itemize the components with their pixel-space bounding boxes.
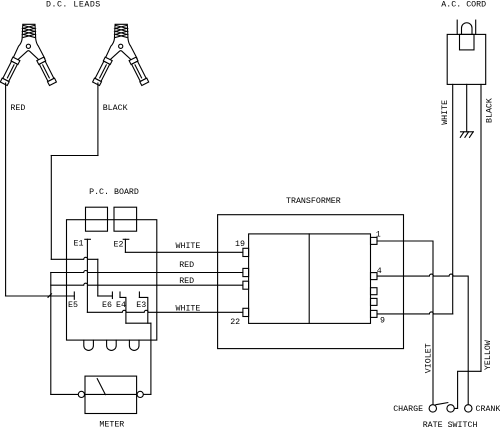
svg-text:WHITE: WHITE (441, 100, 450, 125)
wire E4/E3 joined horizontal (126, 322, 151, 324)
wire down to meter right (150, 323, 152, 394)
svg-text:METER: METER (99, 421, 124, 429)
A.C. plug prong left (456, 20, 458, 34)
meter terminal circle left (78, 391, 84, 397)
svg-text:E5: E5 (68, 301, 78, 310)
wire BLACK to E6 (hop over E1 wire) (51, 257, 98, 259)
wire meter left horizontal (51, 393, 79, 395)
A.C. plug prong right (475, 20, 477, 34)
svg-text:BLACK: BLACK (103, 104, 128, 113)
svg-text:A.C. CORD: A.C. CORD (441, 0, 486, 9)
wire BLACK a.c. down (480, 84, 482, 371)
wire E4 stub and drop (120, 297, 126, 323)
svg-text:E3: E3 (136, 301, 146, 310)
wire branch vertical to meter left (50, 273, 52, 395)
junction chamfer at RED branch (48, 294, 52, 298)
wire E2 down (124, 239, 126, 252)
svg-text:P.C. BOARD: P.C. BOARD (89, 188, 139, 197)
P.C. board prong tab 2 (107, 340, 117, 350)
terminal E3 (138, 292, 140, 297)
A.C. plug inner rect (460, 34, 475, 50)
meter internal line (85, 393, 137, 395)
wire BLACK horizontal jog (51, 155, 98, 157)
svg-text:E2: E2 (114, 241, 124, 250)
svg-text:CRANK: CRANK (476, 405, 500, 414)
terminal E6 (111, 292, 113, 299)
P.C. board prong tab 1 (84, 340, 94, 350)
wire pin 4 to CRANK (hops over violet and white wires) (377, 274, 468, 405)
wire BLACK clip down (97, 83, 99, 156)
svg-text:RED: RED (179, 277, 194, 286)
svg-text:9: 9 (380, 317, 385, 326)
transformer pin 1 (371, 237, 378, 244)
svg-text:1: 1 (376, 231, 381, 240)
transformer pin 22 (243, 308, 249, 316)
A.C. plug cord arch (462, 23, 473, 35)
rate switch terminal CRANK (465, 405, 472, 412)
svg-text:WHITE: WHITE (176, 242, 201, 251)
P.C. board prong tab 3 (129, 340, 139, 350)
terminal E5 (73, 292, 75, 299)
alligator clip RED (D.C. lead) (0, 24, 56, 85)
chassis ground symbol (461, 131, 474, 133)
svg-text:22: 22 (230, 318, 240, 327)
transformer pin 9 (371, 310, 378, 317)
transformer inner box (249, 234, 371, 324)
wire pin 1 to CHARGE (violet) (377, 241, 433, 405)
svg-text:19: 19 (235, 240, 245, 249)
wire BLACK vertical (50, 156, 52, 260)
svg-text:RED: RED (10, 104, 25, 113)
wire E1 to pin 22 (hops over E4,E3 wires) (87, 310, 242, 312)
transformer outer box (218, 215, 404, 349)
svg-text:E6: E6 (102, 301, 112, 310)
svg-text:TRANSFORMER: TRANSFORMER (286, 197, 341, 206)
meter needle (97, 379, 105, 395)
transformer pin 4 (371, 273, 378, 280)
svg-text:RATE SWITCH: RATE SWITCH (423, 421, 478, 429)
P.C. board component square 2 (114, 207, 137, 231)
terminal E4 (119, 292, 121, 297)
rate switch arm (436, 403, 448, 405)
wire E2 to pin 19 (125, 251, 242, 253)
meter body (85, 376, 137, 413)
P.C. board component square 1 (86, 207, 108, 231)
wire YELLOW from black a.c. to middle switch terminal (454, 371, 481, 408)
rate switch terminal CHARGE (429, 405, 436, 412)
svg-text:WHITE: WHITE (176, 304, 201, 313)
transformer pin (3rd right) (371, 288, 378, 295)
svg-text:CHARGE: CHARGE (393, 405, 423, 414)
meter terminal circle right (137, 391, 143, 397)
svg-text:4: 4 (377, 267, 382, 276)
wire RED2 to transformer pin (hop over E1 wire) (51, 283, 243, 285)
wire meter right horizontal (143, 393, 151, 395)
wire a.c. ground drop (466, 84, 468, 131)
A.C. plug body (447, 34, 486, 84)
svg-text:BLACK: BLACK (485, 98, 494, 123)
wire E3 stub and drop (139, 297, 147, 323)
wire E1 vertical down (86, 239, 88, 312)
transformer pin (3rd left) (243, 281, 249, 289)
svg-text:E1: E1 (74, 239, 84, 248)
wire RED clip down (5, 83, 7, 296)
svg-text:VIOLET: VIOLET (424, 343, 433, 373)
rate switch terminal middle (447, 405, 454, 412)
transformer divider (308, 234, 310, 324)
transformer pin (2nd left) (243, 268, 249, 276)
svg-text:D.C. LEADS: D.C. LEADS (46, 1, 101, 10)
alligator clip BLACK (D.C. lead) (93, 24, 149, 85)
wire E6 horizontal (98, 295, 113, 297)
wire RED horizontal to E5 (6, 295, 75, 297)
P.C. board body (67, 220, 157, 340)
transformer pin 19 (243, 248, 249, 256)
wire pin 9 to white a.c. (hop over violet wire) (377, 312, 453, 314)
wire WHITE a.c. (plug to pin9 net) (452, 84, 454, 314)
svg-text:YELLOW: YELLOW (484, 340, 493, 370)
svg-text:RED: RED (179, 261, 194, 270)
wire E6 drop vertical (97, 259, 99, 296)
transformer pin (4th right) (371, 298, 378, 305)
wire RED1 to transformer pin (hop over E1 wire) (51, 271, 243, 273)
svg-text:E4: E4 (116, 301, 126, 310)
